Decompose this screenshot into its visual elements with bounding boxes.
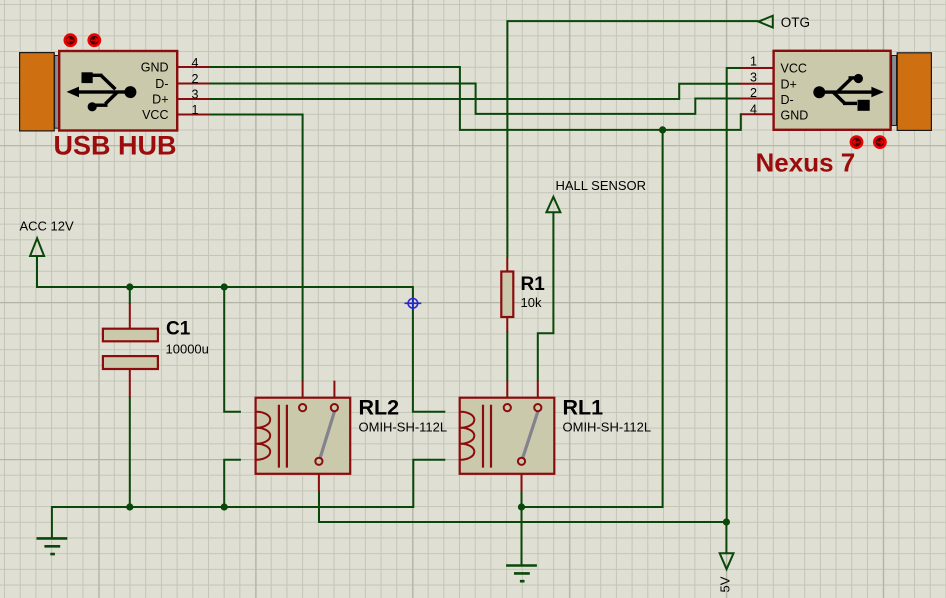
node ground bus / RL2 coil: [221, 503, 228, 510]
RL2 body: [256, 398, 351, 474]
usb hub marker left: [65, 35, 76, 46]
pin nexus D- stub: [740, 98, 774, 100]
usb hub orange shell: [20, 53, 55, 131]
pin hub D+ stub: [177, 98, 210, 100]
svg-text:OMIH-SH-112L: OMIH-SH-112L: [359, 420, 448, 435]
wire D- net: hub pin2 to nexus pin2: [209, 84, 741, 114]
svg-text:GND: GND: [781, 109, 809, 123]
nexus trident icon: [813, 74, 884, 111]
svg-text:2: 2: [192, 72, 199, 86]
pin hub VCC stub: [177, 114, 210, 116]
RL2 core lines: [279, 405, 287, 468]
svg-text:4: 4: [750, 103, 757, 117]
pin nexus VCC stub: [742, 67, 774, 69]
wire C1 top lead: [129, 287, 131, 304]
pin hub GND stub: [177, 66, 210, 68]
svg-text:1: 1: [192, 103, 199, 117]
nexus marker left: [851, 137, 862, 148]
svg-text:USB HUB: USB HUB: [54, 131, 177, 161]
svg-text:HALL SENSOR: HALL SENSOR: [556, 178, 647, 193]
svg-text:3: 3: [192, 88, 199, 102]
RL2 contact circles: [299, 404, 338, 465]
resistor R1: [501, 272, 545, 318]
svg-text:5V: 5V: [718, 576, 733, 592]
RL2 coil: [256, 412, 270, 460]
ground 2: [506, 566, 537, 582]
ground 1: [37, 538, 68, 554]
wire ACC 12V bus to RL1 coil top: [37, 256, 445, 412]
usb hub grey insert: [55, 56, 60, 129]
Nexus 7 connector J2: [750, 51, 931, 178]
wire ACC bus branch to RL2 coil top: [224, 287, 241, 412]
relay RL1: [460, 381, 651, 491]
nexus grey insert: [892, 56, 897, 126]
node ground bus / C1: [126, 503, 133, 510]
wire D+ net: hub pin3 to nexus pin3: [209, 84, 741, 99]
USB HUB connector J1: [20, 35, 199, 161]
wire GND net: hub pin4 to nexus pin4: [209, 67, 742, 130]
RL1 body: [460, 398, 555, 474]
svg-text:10k: 10k: [521, 295, 542, 310]
usb hub trident icon: [67, 72, 137, 111]
RL2 top pin stubs: [303, 381, 335, 491]
node RL1 common junction: [518, 503, 525, 510]
svg-text:RL1: RL1: [563, 396, 604, 420]
pin nexus GND stub: [742, 113, 774, 115]
node ACC bus / C1: [126, 283, 133, 290]
wire 5V terminal drop: [725, 522, 727, 553]
svg-text:4: 4: [192, 56, 199, 70]
pin R1 top lead: [506, 257, 508, 272]
capacitor C1: [103, 319, 209, 370]
wire RL2 common pin to 5V bus B: [319, 491, 726, 522]
nexus marker right: [874, 137, 885, 148]
terminal 5V: [718, 553, 734, 592]
usb hub marker right: [89, 35, 100, 46]
svg-text:2: 2: [750, 86, 757, 100]
wire RL1 junction to GND net vertical: [522, 130, 663, 507]
wire R1 to RL1 pin: [506, 331, 508, 381]
wire ground bus A to RL1 coil bottom: [52, 460, 445, 539]
svg-text:1: 1: [750, 55, 757, 69]
terminal OTG: [759, 15, 811, 30]
wire OTG to R1 top: [507, 21, 758, 257]
RL1 switch arm: [523, 412, 538, 458]
svg-text:C1: C1: [166, 319, 191, 340]
RL2 switch arm: [320, 412, 334, 458]
node GND net junction: [659, 126, 666, 133]
pin C1 bottom lead: [129, 369, 131, 398]
RL1 coil: [461, 412, 475, 460]
svg-text:3: 3: [750, 71, 757, 85]
node 5V bus junction: [723, 518, 730, 525]
relay RL2: [256, 381, 448, 491]
RL1 top pin stubs: [507, 381, 538, 491]
wire hub VCC to RL2 pin: [209, 115, 303, 382]
svg-text:D-: D-: [155, 77, 168, 91]
svg-text:VCC: VCC: [781, 62, 807, 76]
svg-text:ACC 12V: ACC 12V: [20, 219, 75, 234]
terminal HALL SENSOR: [546, 178, 646, 212]
node ACC bus / RL2 coil: [221, 283, 228, 290]
svg-text:GND: GND: [141, 61, 169, 75]
wire C1 bottom lead to ground bus: [129, 397, 131, 508]
svg-text:VCC: VCC: [142, 108, 168, 122]
usb hub body: [59, 51, 177, 131]
wire RL2 coil bottom to ground bus: [224, 460, 241, 507]
terminal ACC 12V: [20, 219, 75, 257]
wire nexus VCC down to 5V bus: [727, 68, 742, 522]
pin R1 bottom lead: [506, 317, 508, 332]
svg-text:D+: D+: [781, 78, 797, 92]
wire HALL SENSOR to RL1 pin: [538, 212, 554, 381]
svg-text:Nexus 7: Nexus 7: [756, 148, 856, 178]
pin nexus D+ stub: [740, 83, 774, 85]
wire RL1 junction to ground 2: [521, 507, 523, 566]
nexus body: [774, 51, 891, 130]
RL1 contact circles: [504, 404, 542, 465]
wire RL1 common pin down: [521, 491, 523, 507]
svg-text:OMIH-SH-112L: OMIH-SH-112L: [563, 420, 652, 435]
pin C1 top lead: [129, 303, 131, 329]
svg-text:10000u: 10000u: [166, 342, 209, 357]
svg-text:OTG: OTG: [781, 15, 810, 30]
pin hub D- stub: [177, 83, 210, 85]
svg-text:D-: D-: [781, 93, 794, 107]
nexus orange shell: [897, 53, 931, 131]
RL1 core lines: [483, 405, 491, 468]
PIN STUBS: [130, 67, 774, 398]
svg-text:RL2: RL2: [359, 396, 400, 420]
svg-text:D+: D+: [152, 93, 168, 107]
origin marker crosshair: [405, 297, 422, 309]
svg-text:R1: R1: [521, 274, 546, 295]
